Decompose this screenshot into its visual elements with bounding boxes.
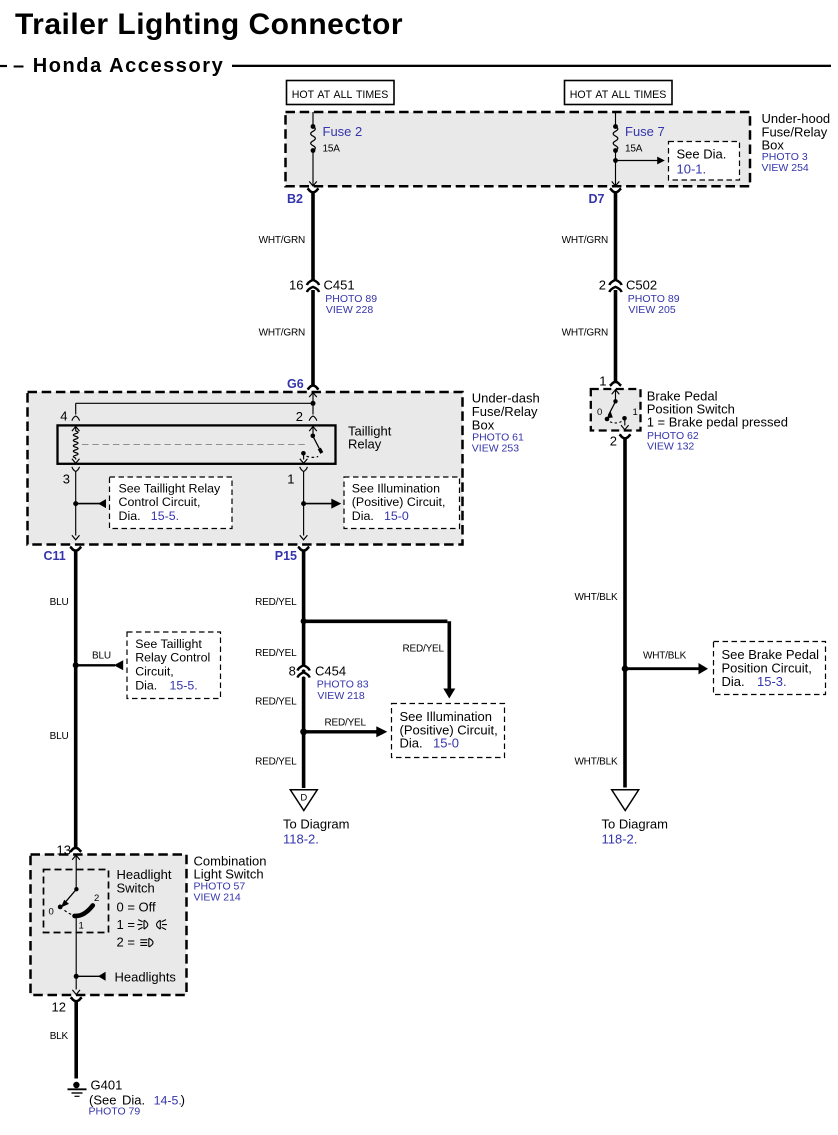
svg-text:Dia.: Dia. bbox=[135, 679, 157, 693]
svg-text:Fuse 7: Fuse 7 bbox=[625, 124, 665, 139]
svg-text:VIEW 218: VIEW 218 bbox=[317, 690, 364, 702]
svg-text:RED/YEL: RED/YEL bbox=[255, 597, 297, 608]
svg-text:Relay: Relay bbox=[348, 437, 382, 452]
svg-text:1: 1 bbox=[79, 921, 84, 932]
svg-text:15-0: 15-0 bbox=[384, 509, 409, 523]
svg-text:0 = Off: 0 = Off bbox=[117, 900, 157, 915]
svg-text:15-3.: 15-3. bbox=[757, 674, 787, 689]
svg-text:C451: C451 bbox=[324, 277, 355, 292]
svg-text:1 = Brake pedal pressed: 1 = Brake pedal pressed bbox=[647, 414, 788, 429]
svg-text:RED/YEL: RED/YEL bbox=[403, 644, 445, 655]
svg-text:16: 16 bbox=[289, 277, 303, 292]
svg-text:3: 3 bbox=[63, 471, 70, 486]
svg-text:WHT/GRN: WHT/GRN bbox=[259, 235, 305, 246]
svg-text:See Taillight Relay: See Taillight Relay bbox=[119, 481, 222, 495]
svg-text:15-0: 15-0 bbox=[433, 736, 459, 751]
svg-text:G401: G401 bbox=[91, 1078, 123, 1093]
svg-text:Headlights: Headlights bbox=[115, 970, 177, 985]
svg-text:15-5.: 15-5. bbox=[170, 679, 198, 693]
svg-text:0: 0 bbox=[597, 407, 602, 418]
svg-text:(Positive) Circuit,: (Positive) Circuit, bbox=[352, 495, 446, 509]
svg-text:VIEW 214: VIEW 214 bbox=[194, 892, 241, 904]
svg-text:14-5.: 14-5. bbox=[154, 1094, 182, 1108]
svg-text:15A: 15A bbox=[323, 144, 341, 155]
svg-text:1: 1 bbox=[599, 374, 606, 389]
svg-text:Dia.: Dia. bbox=[119, 509, 141, 523]
svg-text:RED/YEL: RED/YEL bbox=[255, 697, 297, 708]
svg-text:WHT/GRN: WHT/GRN bbox=[562, 327, 608, 338]
svg-text:B2: B2 bbox=[287, 192, 303, 206]
svg-text:G6: G6 bbox=[287, 377, 304, 391]
svg-text:8: 8 bbox=[289, 664, 296, 679]
svg-text:D7: D7 bbox=[589, 192, 605, 206]
svg-text:See Taillight: See Taillight bbox=[135, 637, 202, 651]
svg-text:See Illumination: See Illumination bbox=[352, 481, 440, 495]
svg-text:Fuse 2: Fuse 2 bbox=[323, 124, 363, 139]
svg-text:15A: 15A bbox=[625, 144, 643, 155]
svg-text:P15: P15 bbox=[275, 549, 297, 563]
svg-text:BLK: BLK bbox=[50, 1031, 69, 1042]
svg-text:VIEW 228: VIEW 228 bbox=[326, 304, 373, 316]
svg-text:1 =: 1 = bbox=[117, 917, 135, 932]
svg-text:15-5.: 15-5. bbox=[151, 509, 179, 523]
svg-text:Box: Box bbox=[472, 417, 495, 432]
svg-text:WHT/BLK: WHT/BLK bbox=[574, 757, 618, 768]
svg-text:D: D bbox=[300, 793, 307, 804]
svg-text:Relay Control: Relay Control bbox=[135, 651, 210, 665]
svg-text:PHOTO 79: PHOTO 79 bbox=[89, 1106, 141, 1118]
svg-text:BLU: BLU bbox=[50, 731, 69, 742]
svg-text:Control Circuit,: Control Circuit, bbox=[119, 495, 201, 509]
svg-text:2: 2 bbox=[610, 434, 617, 449]
svg-text:118-2.: 118-2. bbox=[602, 832, 638, 847]
svg-text:PHOTO 83: PHOTO 83 bbox=[317, 679, 369, 691]
svg-text:VIEW 132: VIEW 132 bbox=[647, 441, 694, 453]
svg-text:2: 2 bbox=[296, 409, 303, 424]
svg-text:See Dia.: See Dia. bbox=[677, 147, 727, 162]
svg-text:10-1.: 10-1. bbox=[677, 162, 707, 177]
svg-text:– Honda Accessory: – Honda Accessory bbox=[13, 55, 224, 77]
svg-text:RED/YEL: RED/YEL bbox=[255, 648, 297, 659]
svg-text:To Diagram: To Diagram bbox=[283, 817, 349, 832]
svg-text:): ) bbox=[181, 1093, 185, 1108]
svg-text:WHT/GRN: WHT/GRN bbox=[562, 235, 608, 246]
svg-text:HOT AT ALL TIMES: HOT AT ALL TIMES bbox=[292, 89, 389, 101]
svg-text:C11: C11 bbox=[44, 549, 66, 563]
svg-text:RED/YEL: RED/YEL bbox=[325, 718, 367, 729]
svg-text:VIEW 254: VIEW 254 bbox=[762, 162, 809, 174]
svg-text:12: 12 bbox=[52, 1000, 66, 1015]
svg-text:VIEW 205: VIEW 205 bbox=[628, 304, 675, 316]
svg-text:4: 4 bbox=[60, 409, 67, 424]
svg-text:Trailer Lighting Connector: Trailer Lighting Connector bbox=[15, 8, 403, 41]
svg-text:1: 1 bbox=[633, 407, 638, 418]
svg-text:WHT/BLK: WHT/BLK bbox=[574, 592, 618, 603]
svg-text:C502: C502 bbox=[626, 277, 657, 292]
svg-text:PHOTO 89: PHOTO 89 bbox=[325, 293, 377, 305]
svg-text:PHOTO 89: PHOTO 89 bbox=[628, 293, 680, 305]
svg-text:2: 2 bbox=[599, 277, 606, 292]
svg-text:1: 1 bbox=[287, 471, 294, 486]
svg-text:HOT AT ALL TIMES: HOT AT ALL TIMES bbox=[570, 89, 667, 101]
svg-text:2 =: 2 = bbox=[117, 935, 135, 950]
svg-text:VIEW 253: VIEW 253 bbox=[472, 442, 519, 454]
svg-text:To Diagram: To Diagram bbox=[602, 817, 668, 832]
svg-text:BLU: BLU bbox=[92, 651, 111, 662]
svg-text:C454: C454 bbox=[315, 664, 346, 679]
svg-text:Dia.: Dia. bbox=[352, 509, 374, 523]
svg-text:WHT/GRN: WHT/GRN bbox=[259, 327, 305, 338]
svg-text:2: 2 bbox=[94, 893, 99, 904]
svg-text:Switch: Switch bbox=[117, 881, 155, 896]
svg-text:Circuit,: Circuit, bbox=[135, 665, 174, 679]
svg-text:BLU: BLU bbox=[50, 597, 69, 608]
svg-text:RED/YEL: RED/YEL bbox=[255, 756, 297, 767]
svg-text:Light Switch: Light Switch bbox=[194, 867, 264, 882]
svg-text:118-2.: 118-2. bbox=[283, 832, 319, 847]
svg-text:Dia.: Dia. bbox=[400, 736, 423, 751]
svg-text:WHT/BLK: WHT/BLK bbox=[643, 651, 687, 662]
svg-text:0: 0 bbox=[49, 907, 54, 918]
svg-text:Dia.: Dia. bbox=[722, 674, 745, 689]
